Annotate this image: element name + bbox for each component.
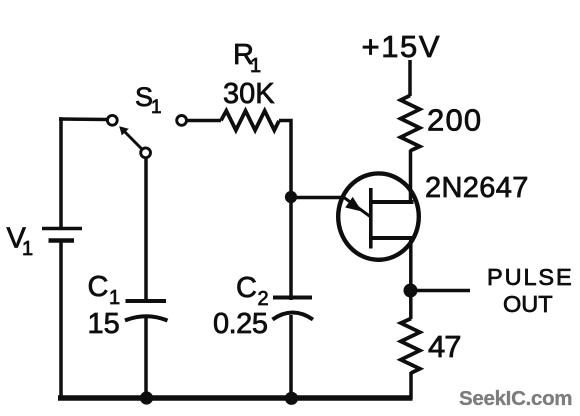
switch S1 <box>107 115 150 157</box>
wire emitter diagonal <box>344 198 371 218</box>
svg-text:0.25: 0.25 <box>213 308 267 340</box>
wire bottom rail <box>58 395 413 401</box>
wire C2 to bottom rail <box>289 315 293 398</box>
svg-text:30K: 30K <box>223 78 275 110</box>
svg-text:1: 1 <box>250 55 261 77</box>
wire switch to C1 <box>144 158 148 299</box>
capacitor C2 <box>273 298 314 320</box>
svg-text:1: 1 <box>109 287 120 309</box>
wire C1 to bottom rail <box>144 316 148 398</box>
battery V1 <box>42 229 82 241</box>
wire R1 right lead <box>279 121 291 197</box>
capacitor C1 <box>125 301 168 321</box>
svg-text:2N2647: 2N2647 <box>425 172 529 204</box>
junction dot C2/bottom <box>285 392 298 405</box>
wire R1 left lead <box>187 119 221 123</box>
svg-text:1: 1 <box>22 238 33 260</box>
svg-text:C: C <box>88 271 109 303</box>
wire +15V supply lead <box>408 60 412 96</box>
wire 200 resistor to base2 <box>409 150 413 202</box>
svg-text:200: 200 <box>427 103 482 138</box>
wire top-left horizontal <box>59 117 107 121</box>
resistor 47 <box>401 319 420 374</box>
transistor emitter arrowhead <box>345 197 362 212</box>
wire pulse out <box>410 289 470 293</box>
svg-text:OUT: OUT <box>503 291 553 317</box>
wire 47 resistor to bottom rail <box>409 372 413 399</box>
transistor Q1 2N2647 (UJT) <box>338 173 419 259</box>
svg-text:SeekIC.com: SeekIC.com <box>459 387 572 410</box>
svg-text:47: 47 <box>428 329 460 364</box>
svg-text:PULSE: PULSE <box>487 264 574 290</box>
svg-text:+15V: +15V <box>362 29 442 64</box>
switch S1 arrowhead <box>119 126 129 135</box>
wire left rail lower <box>59 242 63 399</box>
svg-text:1: 1 <box>151 97 162 118</box>
wire left rail upper <box>59 117 63 227</box>
junction dot pulse out <box>404 284 418 298</box>
resistor 200 <box>401 96 420 151</box>
junction dot C1/bottom <box>140 391 153 404</box>
svg-text:15: 15 <box>88 308 120 340</box>
wire emitter horizontal <box>291 196 345 200</box>
svg-text:C: C <box>236 272 257 304</box>
junction dot R1/C2/emitter <box>285 191 297 203</box>
svg-text:2: 2 <box>258 288 269 310</box>
wire C2 upper <box>289 197 293 300</box>
resistor R1 30K <box>177 111 279 130</box>
wire base1 to 47 resistor <box>409 238 413 319</box>
